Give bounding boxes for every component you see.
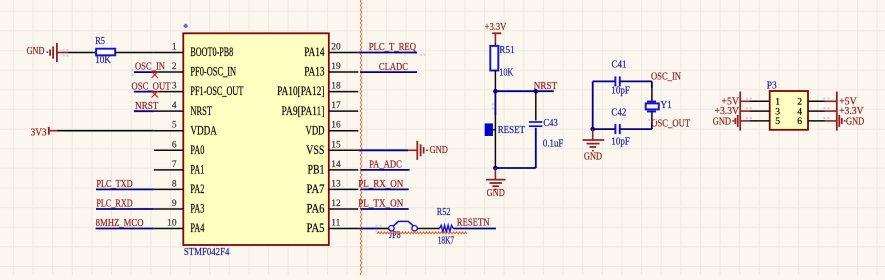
IC pin 3 [154,91,184,93]
svg-text:R52: R52 [437,207,451,218]
svg-text:NRST: NRST [190,104,212,118]
svg-text:1: 1 [172,43,177,53]
svg-text:20: 20 [331,43,341,53]
svg-text:PL_RX_ON: PL_RX_ON [358,179,403,190]
P3 pin 2 [808,100,825,102]
svg-text:18: 18 [331,82,341,92]
svg-text:PL_TX_ON: PL_TX_ON [358,199,403,210]
svg-text:GND: GND [27,46,45,57]
svg-text:6: 6 [797,116,802,127]
wire R51 to junction [494,71,496,92]
svg-text:GND: GND [584,151,603,162]
svg-text:PLC_RXD: PLC_RXD [96,199,133,210]
node bottom junction [493,166,498,171]
svg-text:PA0: PA0 [190,143,204,157]
power bar left [739,92,741,131]
connector P3 body [770,91,808,130]
svg-text:PA7: PA7 [307,182,325,196]
svg-text:7: 7 [172,160,177,170]
ground below RESET [494,168,496,180]
svg-text:PA6: PA6 [307,202,325,216]
IC pin 19 [329,71,359,73]
jumper JP8 [389,226,394,231]
IC pin 15 [329,149,359,151]
wire OSC_IN down to crystal [651,81,653,88]
wire left vertical (crystal gnd rail) [592,81,594,129]
svg-text:3V3: 3V3 [31,127,47,138]
svg-text:NRST: NRST [135,101,159,112]
svg-text:5: 5 [775,116,780,127]
wire OSC_IN [134,71,154,73]
svg-text:PA5: PA5 [307,221,325,235]
svg-text:PA3: PA3 [190,202,204,216]
pushbutton RESET [485,124,492,136]
wire junction down to RESET [494,91,496,115]
error cross on OSC_OUT [152,91,159,98]
svg-text:PLC_T_REQ: PLC_T_REQ [369,42,417,53]
node crystal gnd junction [590,127,595,132]
resistor R52 (zigzag) [440,225,454,231]
svg-text:13: 13 [331,179,341,189]
wire +3.3V to R51 [494,43,496,46]
svg-text:STMF042F4: STMF042F4 [184,247,230,258]
IC pin 10 [154,228,184,230]
wire NRST left [134,110,154,112]
svg-text:C43: C43 [543,118,557,129]
IC pin 13 [329,188,359,190]
P3 pin 1 [750,100,770,102]
svg-text:VSS: VSS [306,143,324,157]
svg-text:17: 17 [331,101,341,111]
svg-text:BOOT0-PB8: BOOT0-PB8 [190,45,233,59]
svg-text:10pF: 10pF [611,137,630,148]
IC pin 4 [154,110,184,112]
svg-text:OSC_OUT: OSC_OUT [132,81,171,92]
svg-text:PLC_TXD: PLC_TXD [96,179,133,190]
IC pin 11 [329,228,359,230]
svg-text:VDDA: VDDA [190,123,217,137]
wire R5 to pin 1 [115,52,154,54]
svg-text:PA1: PA1 [190,162,204,176]
crystal Y1 [647,101,656,103]
IC pin 12 [329,208,359,210]
svg-text:CLADC: CLADC [379,62,408,73]
IC pin 16 [329,130,359,132]
svg-text:0.1uF: 0.1uF [543,139,563,150]
IC U1 STMF042F4 body [183,33,328,245]
IC pin 5 [154,130,184,132]
decorative snap marks [63,49,830,233]
svg-text:GND: GND [713,117,732,128]
svg-text:R5: R5 [95,36,105,47]
svg-text:9: 9 [172,199,177,209]
wire crystal down to OSC_OUT [651,112,653,123]
error cross on OSC_IN [152,72,159,79]
svg-text:PA13: PA13 [304,65,324,79]
capacitor C41 [593,80,616,82]
wire PLC_RXD [96,208,154,210]
svg-text:PA4: PA4 [190,221,204,235]
svg-text:C41: C41 [612,60,627,71]
wire bottom of RESET/C43 [495,167,535,169]
svg-text:5: 5 [172,121,177,131]
svg-text:PF0-OSC_IN: PF0-OSC_IN [190,65,236,79]
IC pin 20 [329,52,359,54]
ground (crystal) [592,129,594,140]
svg-text:3: 3 [172,82,177,92]
power bar right [836,92,838,131]
svg-text:RESETN: RESETN [457,218,490,229]
resistor R51 [490,46,498,71]
svg-text:OSC_IN: OSC_IN [651,71,681,82]
ground at VSS [408,149,417,151]
wire PL_RX_ON [360,188,408,190]
wire PLC_T_REQ [358,52,417,54]
svg-text:RESET: RESET [498,125,526,136]
svg-text:PA_ADC: PA_ADC [369,160,402,171]
svg-text:P3: P3 [767,81,777,92]
capacitor C42 [593,128,616,130]
svg-text:10: 10 [167,219,177,229]
ground right of P3 [838,115,840,127]
svg-text:GND: GND [487,188,506,199]
svg-text:PA2: PA2 [190,182,204,196]
svg-text:10K: 10K [95,55,111,66]
wire OSC_OUT [134,91,154,93]
capacitor C43 [535,91,537,120]
svg-text:14: 14 [331,160,341,170]
svg-text:PA9[PA11]: PA9[PA11] [282,104,325,118]
IC pin 7 [154,169,184,171]
IC pin 18 [329,91,359,93]
svg-text:+3.3V: +3.3V [715,106,740,117]
IC pin 9 [154,208,184,210]
svg-text:PF1-OSC_OUT: PF1-OSC_OUT [190,84,243,98]
wire PL_TX_ON [360,208,408,210]
wire PLC_TXD [96,188,154,190]
svg-text:15: 15 [331,140,341,150]
wire 3V3 to pin 5 [58,130,154,132]
ground left of P3 [737,115,739,127]
svg-text:8MHZ_MCO: 8MHZ_MCO [96,218,144,229]
IC pin 8 [154,188,184,190]
wire RESETN [453,228,496,230]
svg-text:10K: 10K [499,68,513,79]
resistor R5 [96,49,115,56]
IC pin 2 [154,71,184,73]
svg-text:OSC_OUT: OSC_OUT [651,119,690,130]
wire GND to R5 [68,52,96,54]
svg-text:+3.3V: +3.3V [485,22,507,33]
wire pin11 to JP8 [358,228,361,230]
marker cross top-left [184,24,188,28]
orange squiggle under JP8/R52 [377,232,467,234]
node NRST junction [493,89,498,94]
svg-text:OSC_IN: OSC_IN [135,62,165,73]
IC pin 1 [154,52,184,54]
P3 pin 6 [808,120,825,122]
svg-text:VDD: VDD [306,123,325,137]
wire JP8 to R52 [417,228,439,230]
svg-text:8: 8 [172,179,177,189]
svg-text:19: 19 [331,62,341,72]
svg-text:PA10[PA12]: PA10[PA12] [277,84,324,98]
svg-text:12: 12 [331,199,341,209]
P3 pin 5 [750,120,770,122]
IC pin 6 [154,149,184,151]
svg-text:+3.3V: +3.3V [839,106,864,117]
P3 pin 4 [808,110,825,112]
svg-text:4: 4 [172,101,177,111]
IC pin 14 [329,169,359,171]
P3 pin 3 [750,110,770,112]
svg-text:Y1: Y1 [661,100,672,111]
svg-text:PB1: PB1 [308,162,325,176]
svg-text:6: 6 [172,140,177,150]
svg-text:GND: GND [430,145,449,156]
wire PA_ADC [360,169,409,171]
IC pin 17 [329,110,359,112]
svg-text:PA14: PA14 [304,45,324,59]
svg-text:16: 16 [331,121,341,131]
svg-text:R51: R51 [499,45,514,56]
wire VSS to ground [358,149,408,151]
node C43 top junction [534,89,539,94]
wire NRST horizontal [495,90,553,92]
svg-text:GND: GND [846,117,865,128]
svg-text:11: 11 [331,219,340,229]
svg-text:2: 2 [172,62,177,72]
wire 8MHZ_MCO [96,228,154,230]
wire CLADC [360,71,417,73]
page break dashed line [361,0,362,275]
svg-text:18K7: 18K7 [438,235,454,246]
svg-text:C42: C42 [611,108,626,119]
svg-text:10pF: 10pF [611,85,630,96]
